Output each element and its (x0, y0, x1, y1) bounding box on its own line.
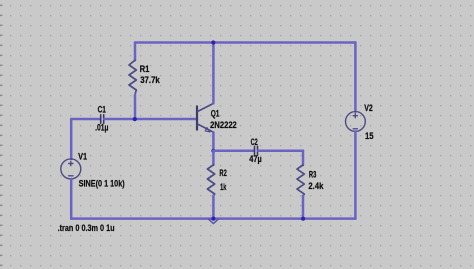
transistor Q1 (197, 103, 213, 132)
wire R2 bottom lead (212, 196, 215, 219)
svg-text:.01µ: .01µ (95, 123, 108, 133)
svg-text:R1: R1 (140, 64, 150, 74)
resistor R2 (207, 165, 214, 196)
svg-text:R2: R2 (219, 168, 226, 178)
svg-text:V1: V1 (78, 151, 87, 161)
svg-text:C1: C1 (98, 105, 106, 115)
svg-text:.tran 0 0.3m 0 1u: .tran 0 0.3m 0 1u (58, 223, 115, 233)
junction emitter node (211, 149, 215, 153)
wire R1 bottom lead (134, 95, 137, 119)
svg-text:V2: V2 (364, 103, 373, 113)
voltage source V1 (61, 159, 81, 179)
wire base net right segment (104, 118, 197, 121)
wire V2 top lead (354, 43, 357, 112)
junction R3 bottom node (301, 217, 305, 221)
wire R2 top lead (212, 151, 215, 165)
wire V2 bottom lead (354, 131, 357, 218)
wire emitter net left segment (213, 150, 254, 153)
svg-text:Q1: Q1 (211, 108, 220, 118)
wire base net left segment (71, 118, 100, 121)
resistor R1 (129, 60, 136, 94)
wire top rail (135, 41, 355, 44)
capacitor C2 (255, 146, 258, 155)
wire emitter net right segment (258, 150, 303, 153)
ground (209, 219, 219, 223)
svg-text:SINE(0 1 10k): SINE(0 1 10k) (79, 179, 125, 189)
svg-text:15: 15 (365, 131, 374, 141)
wire collector lead (212, 43, 215, 104)
wire emitter lead (212, 132, 215, 151)
resistor R3 (297, 165, 304, 196)
wire R3 bottom lead (302, 196, 305, 219)
junction base node (133, 117, 137, 121)
voltage source V2 (346, 112, 366, 132)
wire V1 bottom lead (70, 179, 73, 219)
wire V1 top lead (70, 119, 73, 159)
svg-text:37.7k: 37.7k (140, 75, 160, 85)
svg-text:1k: 1k (220, 182, 227, 192)
junction ground node (211, 217, 215, 221)
svg-text:2.4k: 2.4k (308, 181, 324, 191)
wire bottom rail (71, 217, 355, 220)
wire R3 top lead (302, 151, 305, 165)
svg-text:47µ: 47µ (249, 154, 261, 164)
wire R1 top lead (134, 43, 137, 61)
svg-text:2N2222: 2N2222 (210, 120, 237, 130)
svg-text:R3: R3 (309, 170, 316, 180)
junction collector node (211, 40, 215, 44)
capacitor C1 (101, 115, 104, 124)
svg-text:C2: C2 (251, 137, 258, 147)
